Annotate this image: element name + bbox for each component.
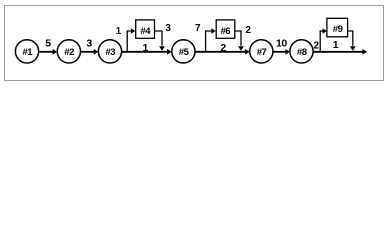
node #1 (15, 40, 38, 63)
wire branch up into box #4 (127, 28, 135, 52)
svg-text:#8: #8 (297, 47, 307, 58)
wire branch up into box #6 (206, 28, 216, 52)
svg-text:3: 3 (165, 23, 171, 34)
svg-text:10: 10 (276, 37, 287, 49)
wire #7 to #8 (273, 49, 290, 55)
node #5 (172, 40, 195, 63)
svg-text:#7: #7 (257, 47, 267, 58)
wire from box #6 down to main line (235, 31, 244, 51)
box #6 (216, 20, 235, 38)
svg-text:3: 3 (86, 38, 92, 50)
wire from box #9 down to main line (348, 31, 356, 51)
svg-text:#1: #1 (22, 47, 33, 58)
svg-text:1: 1 (116, 26, 122, 37)
wire from box #4 down to main line (155, 31, 165, 51)
wire #5 to #7 (195, 49, 250, 55)
svg-text:2: 2 (314, 40, 320, 51)
wire branch up into box #9 (320, 28, 327, 52)
wire #1 to #2 (38, 49, 57, 55)
svg-text:#6: #6 (221, 26, 231, 37)
box #9 (327, 18, 348, 37)
svg-text:#2: #2 (64, 47, 74, 58)
svg-text:#9: #9 (333, 24, 343, 35)
svg-text:2: 2 (220, 42, 226, 54)
svg-text:1: 1 (333, 39, 339, 51)
node #3 (98, 40, 121, 63)
wire #3 to #5 (122, 49, 172, 55)
node #8 (290, 40, 313, 63)
svg-text:#4: #4 (140, 26, 151, 37)
node #2 (57, 40, 80, 63)
svg-text:5: 5 (45, 37, 51, 49)
svg-text:#5: #5 (179, 47, 190, 58)
svg-text:1: 1 (142, 42, 148, 54)
wire #2 to #3 (81, 49, 99, 55)
box #4 (136, 20, 155, 38)
node #7 (250, 40, 273, 63)
wire #8 to exit (313, 49, 367, 55)
svg-text:7: 7 (195, 23, 201, 34)
svg-text:2: 2 (245, 25, 251, 36)
svg-text:#3: #3 (105, 47, 115, 58)
